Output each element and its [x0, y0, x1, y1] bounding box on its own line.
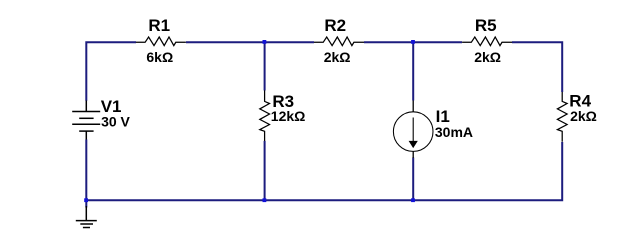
node junction bottom R3 [263, 198, 267, 202]
resistor R2 [314, 37, 364, 46]
svg-text:12kΩ: 12kΩ [271, 108, 306, 124]
wire: R3 branch bottom [264, 141, 266, 200]
svg-text:2kΩ: 2kΩ [324, 49, 351, 65]
wire: left vertical top + top-left corner to R1 [86, 42, 136, 101]
wire: left vertical below battery [85, 140, 87, 201]
wire: R4 bottom, bottom-right corner, bottom rail [86, 142, 562, 200]
wire: top, R5 to top-right corner, down to R4 [512, 42, 562, 92]
svg-text:I1: I1 [436, 107, 450, 126]
wire: I1 branch bottom [412, 158, 414, 201]
svg-text:R5: R5 [475, 16, 497, 35]
svg-text:R2: R2 [324, 16, 346, 35]
resistor R4 (vertical) [557, 92, 567, 142]
ground [76, 206, 97, 228]
svg-text:2kΩ: 2kΩ [570, 108, 597, 124]
wire: top, R1 to R2 [186, 41, 314, 43]
wire: I1 branch top [412, 42, 414, 100]
svg-text:R1: R1 [148, 16, 170, 35]
svg-text:2kΩ: 2kΩ [474, 49, 501, 65]
current source I1 [393, 101, 433, 159]
wire: top, R2 to R5 [364, 41, 462, 43]
node junction bottom ground [84, 198, 88, 202]
wire: R3 branch top [264, 42, 266, 90]
battery V1 [72, 101, 100, 140]
resistor R5 [462, 37, 512, 46]
I1 arrowhead [409, 141, 418, 148]
resistor R1 [136, 37, 186, 46]
svg-text:6kΩ: 6kΩ [146, 49, 173, 65]
node junction top R3 [263, 40, 267, 44]
node junction top I1 [411, 40, 415, 44]
resistor R3 (vertical) [260, 90, 270, 141]
svg-text:30 V: 30 V [101, 114, 130, 130]
svg-text:30mA: 30mA [435, 124, 473, 140]
node junction bottom I1 [411, 198, 415, 202]
wire: ground stub [85, 200, 87, 207]
